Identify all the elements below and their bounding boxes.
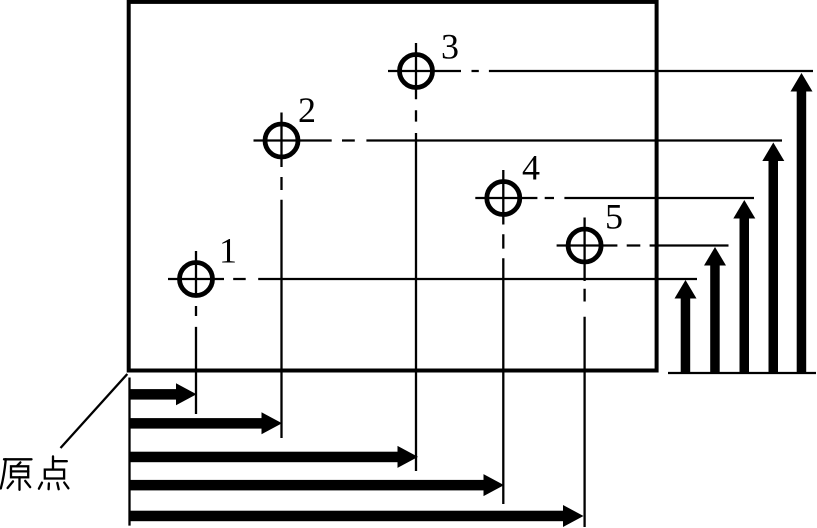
X arrow 5 xyxy=(129,505,584,527)
svg-text:1: 1 xyxy=(219,231,237,271)
extension line from hole 3 down to arrow tip xyxy=(415,110,417,471)
baseline right (Y origin) xyxy=(668,372,816,374)
datum line left (X origin) xyxy=(128,378,130,526)
extension line from hole 1 down to arrow tip xyxy=(195,306,197,414)
hole 5 circle xyxy=(557,218,618,282)
centerline from hole 2 to right arrow xyxy=(342,139,782,141)
Y arrow 2 xyxy=(762,143,784,374)
svg-text:4: 4 xyxy=(522,148,540,188)
leader line to origin label xyxy=(61,374,128,448)
Y arrow 4 xyxy=(733,200,755,373)
hole 1 circle xyxy=(168,251,224,297)
origin label 原点 (drawn strokes) xyxy=(1,456,69,489)
hole 3 circle xyxy=(388,43,461,99)
extension line from hole 2 down to arrow tip xyxy=(280,177,282,438)
svg-text:2: 2 xyxy=(298,90,316,130)
extension line from hole 4 down to arrow tip xyxy=(502,234,504,504)
centerline from hole 5 to right arrow xyxy=(627,244,729,246)
svg-text:3: 3 xyxy=(441,27,459,67)
X arrow 4 xyxy=(129,474,504,496)
hole 2 circle xyxy=(254,113,332,168)
X arrow 3 xyxy=(129,446,418,468)
hole 4 circle xyxy=(475,170,537,225)
X arrow 2 xyxy=(129,412,282,434)
Y arrow 3 xyxy=(791,73,813,373)
Y arrow 5 xyxy=(704,247,726,373)
X arrow 1 xyxy=(129,383,197,405)
centerline from hole 4 to right arrow xyxy=(545,197,754,199)
centerline from hole 3 to right arrow xyxy=(472,70,814,72)
svg-text:5: 5 xyxy=(605,197,623,237)
extension line from hole 5 down to arrow tip xyxy=(583,289,585,527)
centerline from hole 1 to right arrow xyxy=(233,278,697,280)
Y arrow 1 xyxy=(675,280,697,373)
workpiece rectangle xyxy=(129,2,657,371)
